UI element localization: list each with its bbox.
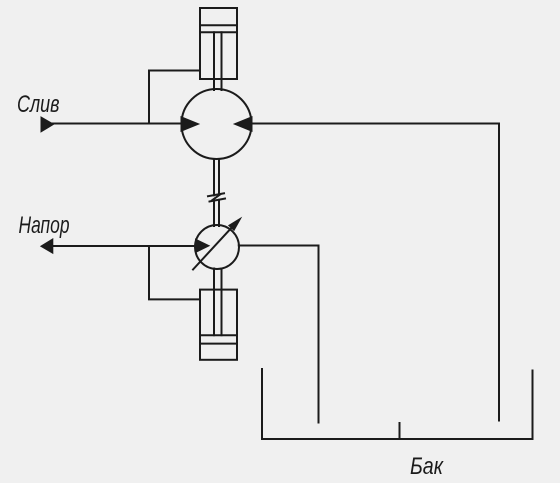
arrowhead Слив <box>42 118 53 131</box>
pump triangle <box>196 240 208 252</box>
arrowhead Напор <box>42 240 53 253</box>
svg-text:Бак: Бак <box>410 453 444 480</box>
tank (Бак) open reservoir <box>262 369 533 439</box>
piston rod bottom (double line) <box>213 269 215 336</box>
wire: motor right to tank <box>252 124 500 421</box>
cylinder top (hydraulic cylinder body) <box>200 8 237 79</box>
shaft (double line motor-pump) <box>213 159 215 195</box>
piston of bottom cylinder <box>200 334 237 336</box>
wire: Напор line <box>44 245 196 247</box>
tank middle tick <box>399 423 401 439</box>
pump variability arrow (diagonal) <box>193 225 234 270</box>
variable pump N1 (circle) <box>195 225 239 269</box>
hydraulic motor M1 (circle) <box>182 89 252 159</box>
svg-text:Напор: Напор <box>19 212 70 239</box>
shaft break symbol <box>208 193 224 196</box>
wire: loop cylinder-bottom to Напор line <box>149 246 200 299</box>
motor triangle right <box>236 118 252 131</box>
piston rod top (double line) <box>213 32 215 90</box>
piston of top cylinder <box>200 24 237 26</box>
wire: Слив line <box>43 123 182 125</box>
wire: pump right to tank <box>239 246 319 423</box>
cylinder bottom (hydraulic cylinder body) <box>200 290 237 360</box>
motor triangle left <box>182 118 198 131</box>
wire: loop cylinder-top to Слив line <box>149 71 200 124</box>
svg-text:Слив: Слив <box>17 91 60 118</box>
